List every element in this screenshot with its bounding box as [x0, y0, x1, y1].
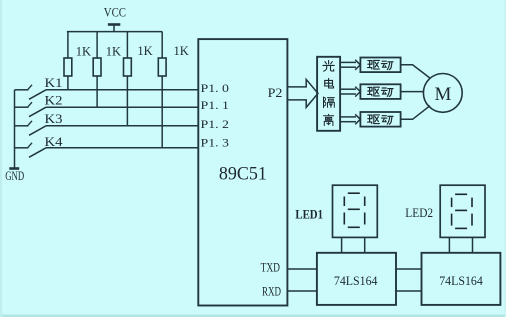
resistor R2 body [93, 58, 101, 76]
svg-text:GND: GND [5, 169, 24, 183]
svg-text:1K: 1K [76, 45, 91, 59]
wire driver2 to motor [401, 91, 424, 93]
wire VCC stub [113, 25, 115, 32]
svg-text:P2: P2 [268, 86, 283, 100]
LED1 seven segment digit [344, 193, 364, 227]
svg-text:74LS164: 74LS164 [439, 273, 483, 288]
IC U1 89C51 body [198, 39, 287, 305]
label 隔 [324, 97, 335, 108]
switch K2 [15, 106, 29, 108]
wire P1.3 [46, 147, 198, 149]
resistor R4 leg upper [161, 32, 163, 58]
svg-text:RXD: RXD [262, 285, 281, 299]
label 光 [323, 61, 334, 72]
svg-text:P1. 3: P1. 3 [201, 136, 230, 150]
svg-text:1K: 1K [174, 44, 189, 58]
wire U2 to U3 lower [396, 290, 422, 292]
svg-text:P1. 2: P1. 2 [201, 117, 230, 131]
switch K4 [15, 147, 29, 149]
LED2 seven segment digit [452, 194, 472, 228]
resistor R3 leg upper [126, 32, 128, 58]
wire P1.2 [46, 125, 198, 127]
VCC power bar [108, 23, 120, 26]
right edge artifact [505, 0, 506, 317]
svg-text:LED1: LED1 [295, 206, 323, 221]
svg-text:M: M [434, 84, 451, 105]
wire top bus [67, 31, 162, 33]
svg-text:1K: 1K [106, 45, 121, 59]
wire R1 leg lower [67, 76, 69, 90]
wire R3 leg lower [126, 76, 128, 126]
wire LED2 pin a [448, 237, 450, 252]
label 驱动 A1 [368, 60, 394, 69]
wire LED1 pin b [364, 237, 366, 252]
label 驱动 A3 [368, 115, 394, 124]
svg-text:1K: 1K [137, 44, 152, 58]
resistor R1 leg upper [67, 32, 69, 58]
switch K1 [15, 89, 29, 91]
switch K3 [15, 125, 29, 127]
wire P1.1 [46, 106, 198, 108]
wire P1.0 [46, 89, 198, 91]
wire driver1 to motor [401, 65, 430, 78]
label 电 [325, 78, 334, 88]
bottom edge artifact [0, 315, 506, 317]
driver box A2 驱动 [360, 84, 400, 99]
svg-text:VCC: VCC [104, 5, 126, 19]
wire LED1 pin a [341, 237, 343, 252]
resistor R2 leg upper [96, 32, 98, 58]
driver box A1 驱动 [360, 58, 400, 73]
svg-text:TXD: TXD [261, 261, 280, 275]
wire RXD [287, 290, 317, 292]
driver box A3 驱动 [360, 112, 400, 127]
LED2 display body [440, 185, 485, 237]
wire left bus [14, 90, 16, 169]
shift register U3 74LS164 body [422, 253, 501, 305]
svg-text:74LS164: 74LS164 [334, 273, 378, 288]
LED1 display body [333, 185, 378, 237]
svg-text:LED2: LED2 [405, 205, 433, 220]
svg-text:K1: K1 [45, 76, 63, 90]
arrow opto to driver 2 [340, 88, 356, 90]
shift register U2 74LS164 body [317, 253, 396, 305]
wire TXD [287, 268, 317, 270]
wire U2 to U3 upper [396, 268, 422, 270]
label 离 [324, 114, 334, 125]
svg-text:K2: K2 [45, 94, 63, 108]
svg-text:P1. 1: P1. 1 [201, 98, 230, 112]
label 驱动 A2 [368, 87, 394, 96]
wire LED2 pin b [472, 237, 474, 252]
wire driver3 to motor [401, 106, 430, 120]
left edge artifact [0, 0, 2, 317]
svg-text:K3: K3 [45, 112, 63, 126]
svg-text:P1. 0: P1. 0 [201, 81, 230, 95]
svg-text:89C51: 89C51 [219, 164, 267, 185]
svg-text:K4: K4 [45, 135, 64, 149]
wire R4 leg lower [161, 76, 163, 148]
P2 bus arrow [287, 79, 318, 107]
resistor R4 body [158, 58, 166, 76]
arrow opto to driver 3 [340, 116, 356, 118]
ground bar [9, 167, 19, 170]
resistor R1 body [64, 58, 72, 76]
resistor R3 body [124, 58, 132, 76]
wire R2 leg lower [96, 76, 98, 107]
opto-isolator box 光电隔离 [317, 57, 340, 131]
motor M1 circle [423, 74, 462, 113]
arrow opto to driver 1 [340, 61, 356, 63]
